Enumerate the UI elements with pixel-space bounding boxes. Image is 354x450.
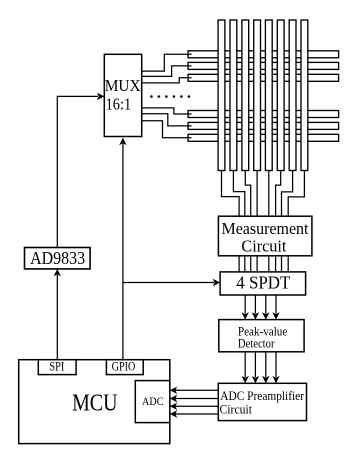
wire electrode V8 to Measurement Circuit — [288, 171, 304, 217]
arrow 4 SPDT to Peak-value Detector #1 — [244, 295, 246, 314]
SPI block — [38, 360, 76, 375]
vertical electrode bar V8 — [301, 20, 308, 171]
wire GPIO branch to 4 SPDT — [123, 282, 214, 284]
vertical electrode bar V5 — [265, 20, 272, 171]
wire electrode V2 to Measurement Circuit — [233, 171, 244, 217]
AD9833 block — [25, 248, 91, 269]
svg-text:Detector: Detector — [238, 336, 275, 350]
arrow Peak-value Detector to ADC Preamplifier #1 — [244, 352, 246, 377]
arrow 4 SPDT to Peak-value Detector #2 — [254, 295, 256, 314]
wire MUX to electrode bar H1 — [142, 54, 192, 71]
horizontal electrode bar H3 — [188, 74, 339, 81]
wire ADC Preamplifier to MCU ADC #2 — [175, 398, 218, 400]
horizontal electrode bar H4 — [188, 111, 339, 118]
svg-text:AD9833: AD9833 — [30, 248, 85, 268]
svg-text:Circuit: Circuit — [241, 237, 286, 256]
wire MUX to electrode bar H6 — [142, 121, 192, 138]
wire Measurement Circuit to 4 SPDT #6 — [275, 256, 277, 272]
svg-text:16:1: 16:1 — [106, 95, 132, 114]
vertical electrode bar V6 — [277, 20, 284, 171]
wire Measurement Circuit to 4 SPDT #3 — [250, 256, 252, 272]
ADC Preamplifier Circuit block — [218, 383, 306, 420]
Peak-value Detector block — [219, 320, 304, 352]
4 SPDT block — [220, 272, 306, 295]
wire electrode V1 to Measurement Circuit — [222, 171, 240, 217]
wire GPIO to MUX — [122, 143, 124, 359]
wire MUX to electrode bar H3 — [142, 78, 192, 83]
svg-text:4 SPDT: 4 SPDT — [236, 272, 290, 292]
wire electrode V3 to Measurement Circuit — [245, 171, 250, 217]
MCU block — [19, 360, 170, 444]
wire SPI to AD9833 — [56, 275, 58, 360]
svg-text:MUX: MUX — [105, 76, 141, 95]
horizontal electrode bar H6 — [188, 134, 339, 141]
ellipsis dots between MUX wires — [150, 95, 153, 98]
wire Measurement Circuit to 4 SPDT #1 — [238, 256, 240, 272]
wire Measurement Circuit to 4 SPDT #2 — [244, 256, 246, 272]
vertical electrode bar V3 — [242, 20, 249, 171]
wire electrode V7 to Measurement Circuit — [282, 171, 293, 217]
arrow 4 SPDT to Peak-value Detector #3 — [265, 295, 267, 314]
svg-text:GPIO: GPIO — [112, 360, 136, 374]
GPIO block — [106, 360, 143, 375]
wire MUX to electrode bar H5 — [142, 114, 192, 126]
wire ADC Preamplifier to MCU ADC #4 — [175, 413, 218, 415]
wire Measurement Circuit to 4 SPDT #5 — [268, 256, 270, 272]
wire electrode V4 to Measurement Circuit — [256, 171, 258, 217]
wire AD9833 to MUX — [57, 96, 98, 247]
wire Measurement Circuit to 4 SPDT #8 — [287, 256, 289, 272]
vertical electrode bar V1 — [218, 20, 225, 171]
wire ADC Preamplifier to MCU ADC #3 — [175, 405, 218, 407]
svg-text:Circuit: Circuit — [220, 402, 253, 417]
wire MUX to electrode bar H2 — [142, 66, 192, 77]
arrow 4 SPDT to Peak-value Detector #4 — [275, 295, 277, 314]
vertical electrode bar V4 — [254, 20, 261, 171]
horizontal electrode bar H2 — [188, 62, 339, 69]
arrow Peak-value Detector to ADC Preamplifier #2 — [254, 352, 256, 377]
horizontal electrode bar H5 — [188, 122, 339, 129]
wire electrode V6 to Measurement Circuit — [276, 171, 281, 217]
ADC block — [135, 381, 170, 423]
arrow Peak-value Detector to ADC Preamplifier #3 — [265, 352, 267, 377]
svg-text:Measurement: Measurement — [222, 219, 309, 238]
Measurement Circuit block — [218, 216, 312, 256]
svg-text:MCU: MCU — [72, 390, 117, 416]
wire Measurement Circuit to 4 SPDT #4 — [256, 256, 258, 272]
svg-text:SPI: SPI — [49, 360, 64, 374]
wire ADC Preamplifier to MCU ADC #1 — [175, 389, 218, 391]
svg-text:ADC: ADC — [142, 394, 164, 408]
vertical electrode bar V7 — [289, 20, 296, 171]
wire electrode V5 to Measurement Circuit — [268, 171, 270, 217]
wire MUX to electrode bar H4 — [142, 108, 192, 114]
wire Measurement Circuit to 4 SPDT #7 — [281, 256, 283, 272]
MUX 16:1 block — [104, 54, 141, 136]
horizontal electrode bar H1 — [188, 51, 339, 58]
vertical electrode bar V2 — [230, 20, 237, 171]
arrow Peak-value Detector to ADC Preamplifier #4 — [275, 352, 277, 377]
